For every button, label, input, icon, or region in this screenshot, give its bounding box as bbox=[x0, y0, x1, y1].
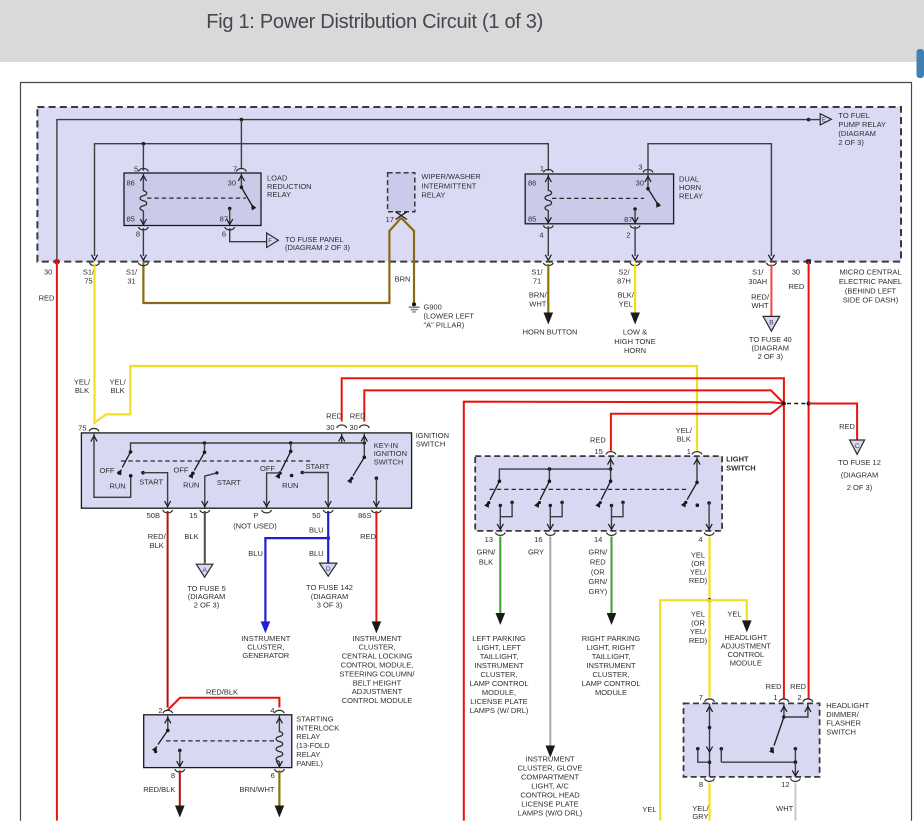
pin 6 connector arc bbox=[275, 769, 285, 772]
svg-text:RUN: RUN bbox=[183, 481, 199, 490]
dimmer pin 12 wire bbox=[794, 762, 796, 777]
node: left 30 feed-through bbox=[55, 259, 60, 264]
wire: pin 30a drop bbox=[341, 433, 343, 443]
wire: red jumper pin2 to pin4 bbox=[168, 698, 280, 710]
svg-text:BLK: BLK bbox=[479, 558, 493, 567]
switch 3 stub bbox=[290, 443, 292, 451]
pin 7 connector arc bbox=[237, 169, 247, 172]
svg-text:(13-FOLD: (13-FOLD bbox=[296, 741, 330, 750]
svg-text:LAMPS (W/O DRL): LAMPS (W/O DRL) bbox=[518, 809, 583, 818]
svg-text:2 OF 3): 2 OF 3) bbox=[847, 483, 873, 492]
svg-text:MODULE: MODULE bbox=[595, 688, 627, 697]
svg-text:TAILLIGHT,: TAILLIGHT, bbox=[480, 652, 519, 661]
svg-text:15: 15 bbox=[594, 447, 602, 456]
svg-text:50: 50 bbox=[312, 511, 320, 520]
switch blade bbox=[241, 187, 253, 207]
ls pin 4 wire bbox=[707, 501, 711, 505]
svg-text:BRN/: BRN/ bbox=[529, 291, 548, 300]
svg-text:GRN/: GRN/ bbox=[477, 548, 497, 557]
svg-text:7: 7 bbox=[233, 165, 237, 174]
coil wire to pin 8 bbox=[142, 211, 144, 226]
svg-text:LAMP CONTROL: LAMP CONTROL bbox=[581, 679, 640, 688]
svg-text:RED): RED) bbox=[689, 576, 708, 585]
svg-text:WHT: WHT bbox=[529, 300, 546, 309]
svg-text:ELECTRIC PANEL: ELECTRIC PANEL bbox=[839, 277, 902, 286]
svg-text:INSTRUMENT: INSTRUMENT bbox=[525, 755, 575, 764]
pin 4 connector arc bbox=[543, 225, 553, 228]
wire: red/blk pin 8 out bbox=[179, 770, 181, 806]
wire: yel pin 4 drop bbox=[708, 537, 710, 601]
svg-text:RED: RED bbox=[350, 412, 366, 421]
svg-text:4: 4 bbox=[270, 706, 274, 715]
svg-text:17: 17 bbox=[386, 215, 394, 224]
dimmer blade bbox=[774, 717, 784, 746]
wire: red light switch 15 to node bbox=[611, 404, 784, 451]
svg-text:S1/: S1/ bbox=[531, 267, 543, 276]
flow arrow D to fuse 142 bbox=[319, 563, 337, 576]
ls wiper 4 bbox=[687, 482, 697, 499]
svg-text:INSTRUMENT: INSTRUMENT bbox=[474, 661, 524, 670]
svg-text:HEADLIGHT: HEADLIGHT bbox=[826, 701, 869, 710]
svg-text:30AH: 30AH bbox=[748, 277, 767, 286]
interlock coil bbox=[276, 732, 283, 762]
pin 3 connector arc bbox=[643, 170, 653, 173]
ls pin 14 wire bbox=[611, 506, 613, 530]
flow arrow E to fuel pump relay bbox=[820, 114, 831, 125]
pin 17 crossed mark bbox=[396, 212, 408, 220]
ls pin 16 wire bbox=[549, 506, 551, 530]
svg-text:(BEHIND LEFT: (BEHIND LEFT bbox=[845, 286, 897, 295]
ignition dashed actuator link bbox=[121, 460, 311, 462]
svg-text:2 OF 3): 2 OF 3) bbox=[758, 352, 784, 361]
svg-text:START: START bbox=[217, 478, 241, 487]
svg-text:TO FUSE 40: TO FUSE 40 bbox=[749, 335, 792, 344]
svg-text:15: 15 bbox=[189, 511, 197, 520]
switch 3 run contact bbox=[290, 474, 294, 478]
wire: S1/71 brn/wht to horn button bbox=[547, 264, 549, 313]
svg-text:WHT: WHT bbox=[752, 301, 769, 310]
wire: internal 30 bus bbox=[131, 443, 365, 452]
svg-text:RED: RED bbox=[360, 532, 376, 541]
dimmer pin7 side contact bbox=[696, 747, 700, 751]
node: junction above load relay pin 5 bbox=[142, 142, 146, 146]
svg-text:BLK: BLK bbox=[677, 434, 691, 443]
svg-text:16: 16 bbox=[534, 535, 542, 544]
ls contacts 1 bbox=[499, 504, 503, 508]
switch 3 blade bbox=[281, 451, 291, 470]
svg-text:LAMP CONTROL: LAMP CONTROL bbox=[469, 679, 528, 688]
pin 5 connector arc bbox=[139, 169, 149, 172]
svg-text:GRY): GRY) bbox=[588, 587, 607, 596]
svg-text:87H: 87H bbox=[617, 276, 631, 285]
svg-text:BLU: BLU bbox=[309, 525, 324, 534]
interlock coil wire bbox=[278, 715, 280, 732]
svg-text:MODULE: MODULE bbox=[730, 659, 762, 668]
pin 4 connector arc bbox=[275, 710, 285, 713]
flow arrow A to fuse 5 bbox=[196, 564, 213, 577]
connector S2/87H arc bbox=[630, 263, 640, 266]
wire: yel/blk branch to light switch pin 1 bbox=[95, 366, 698, 451]
svg-text:YEL: YEL bbox=[691, 610, 705, 619]
flow arrow C to fuse 12 bbox=[850, 440, 865, 454]
switch 1 start contact to pin 50B bbox=[141, 471, 145, 475]
light switch mech dashed link bbox=[489, 488, 688, 490]
wire: left 30 RED drop bbox=[56, 262, 58, 821]
switch 2 off contact bbox=[191, 472, 195, 476]
svg-text:3 OF 3): 3 OF 3) bbox=[317, 600, 343, 609]
svg-text:LOW &: LOW & bbox=[623, 328, 647, 337]
ignition switch body bbox=[81, 433, 411, 508]
connector S1/31 arc bbox=[139, 263, 149, 266]
svg-text:GENERATOR: GENERATOR bbox=[242, 651, 289, 660]
pin 1 connector arc bbox=[779, 699, 789, 702]
svg-text:RED: RED bbox=[790, 682, 806, 691]
svg-text:RED: RED bbox=[766, 682, 782, 691]
svg-text:YEL/: YEL/ bbox=[690, 627, 707, 636]
svg-text:FLASHER: FLASHER bbox=[826, 719, 861, 728]
svg-text:P: P bbox=[253, 511, 258, 520]
svg-text:RED: RED bbox=[326, 412, 342, 421]
svg-text:GRY: GRY bbox=[692, 812, 708, 821]
wire pin 6 to fuse panel arrow bbox=[230, 228, 267, 242]
wire: yel left branch to page bottom bbox=[660, 600, 709, 820]
svg-text:TO FUEL: TO FUEL bbox=[838, 111, 870, 120]
wire: red mid-rail to node bbox=[464, 402, 784, 821]
pin 87 contact wire bbox=[633, 207, 637, 211]
wire pin 2 to S2/87H bbox=[634, 226, 636, 256]
svg-text:75: 75 bbox=[78, 423, 86, 432]
ground G900 symbol bbox=[412, 302, 416, 306]
svg-text:RED): RED) bbox=[689, 636, 708, 645]
wire: right 30 RED drop to node bbox=[808, 262, 810, 699]
pin 2 connector arc bbox=[803, 699, 813, 702]
svg-text:OFF: OFF bbox=[100, 466, 115, 475]
coil of load reduction relay bbox=[140, 191, 147, 211]
svg-text:CLUSTER,: CLUSTER, bbox=[480, 670, 517, 679]
svg-text:30: 30 bbox=[792, 267, 800, 276]
svg-text:6: 6 bbox=[222, 230, 226, 239]
svg-text:G900: G900 bbox=[424, 303, 442, 312]
pin 6 connector arc bbox=[225, 227, 235, 230]
wire: S2/87H blk/yel to horns bbox=[634, 264, 636, 313]
svg-text:C: C bbox=[855, 443, 860, 450]
pin 12 connector arc bbox=[791, 779, 801, 782]
svg-text:Fig 1: Power Distribution Circ: Fig 1: Power Distribution Circuit (1 of … bbox=[206, 11, 543, 33]
svg-text:MODULE,: MODULE, bbox=[482, 688, 516, 697]
svg-text:LEFT PARKING: LEFT PARKING bbox=[472, 634, 526, 643]
wire: blu 50 branch bbox=[327, 511, 329, 563]
svg-text:12: 12 bbox=[781, 780, 789, 789]
coil wire to pin 4 bbox=[547, 210, 549, 223]
switch common from pin 7 bbox=[240, 173, 242, 187]
wire: blu to instrument cluster generator bbox=[265, 538, 328, 621]
node: blue junction bbox=[326, 536, 330, 540]
light switch body (dashed) bbox=[475, 456, 722, 531]
ls wiper 2 bbox=[540, 481, 549, 500]
svg-text:YEL/: YEL/ bbox=[109, 377, 126, 386]
svg-text:LIGHT, A/C: LIGHT, A/C bbox=[531, 782, 569, 791]
ls lone contact bbox=[696, 503, 700, 507]
svg-text:5: 5 bbox=[134, 165, 138, 174]
svg-text:YEL/: YEL/ bbox=[74, 377, 91, 386]
ls stub 3 bbox=[610, 469, 612, 481]
svg-text:(OR: (OR bbox=[591, 567, 605, 576]
connector S1/71 arc bbox=[543, 263, 553, 266]
svg-text:A: A bbox=[202, 567, 207, 574]
svg-text:SIDE OF DASH): SIDE OF DASH) bbox=[843, 296, 899, 305]
coil wire from pin 5 bbox=[142, 173, 144, 191]
svg-text:PANEL): PANEL) bbox=[296, 759, 323, 768]
svg-text:(DIAGRAM 2 OF 3): (DIAGRAM 2 OF 3) bbox=[285, 243, 351, 252]
svg-text:RED: RED bbox=[590, 557, 606, 566]
key-in blade bbox=[353, 457, 364, 476]
svg-text:RIGHT PARKING: RIGHT PARKING bbox=[582, 634, 641, 643]
light switch internal bus bbox=[610, 456, 612, 469]
svg-text:YEL: YEL bbox=[727, 610, 741, 619]
pin 8 connector arc bbox=[705, 779, 715, 782]
svg-text:YEL: YEL bbox=[619, 300, 633, 309]
svg-text:86S: 86S bbox=[358, 511, 371, 520]
interlock blade bbox=[158, 730, 168, 744]
svg-text:BELT HEIGHT: BELT HEIGHT bbox=[353, 678, 402, 687]
svg-text:INTERLOCK: INTERLOCK bbox=[296, 723, 339, 732]
interlock switch common bbox=[167, 715, 169, 731]
svg-text:PUMP RELAY: PUMP RELAY bbox=[838, 120, 886, 129]
wire: red 86S to modules bbox=[375, 511, 377, 622]
node: junction at fuel pump tap bbox=[807, 118, 811, 122]
svg-text:86: 86 bbox=[528, 179, 536, 188]
svg-text:4: 4 bbox=[539, 230, 543, 239]
svg-text:8: 8 bbox=[136, 230, 140, 239]
wire: yel right branch to headlight adjustment bbox=[710, 600, 747, 621]
pin 1 connector arc bbox=[692, 452, 702, 455]
dashed actuator link bbox=[147, 197, 246, 199]
wire: 30 bus (left 30 to fuel pump relay) bbox=[57, 120, 809, 262]
wire: red ignition 30a to dimmer pin 1 bbox=[342, 378, 784, 698]
svg-text:85: 85 bbox=[528, 214, 536, 223]
wire: grn/red to right parking lights bbox=[611, 537, 613, 614]
svg-text:HORN BUTTON: HORN BUTTON bbox=[523, 328, 578, 337]
coil wire from pin 1 bbox=[547, 174, 549, 191]
relay: dual horn relay body bbox=[525, 174, 673, 224]
wire: yel/blk S1/75 to ignition pin 75 bbox=[93, 264, 95, 424]
svg-text:30: 30 bbox=[228, 179, 236, 188]
svg-text:87: 87 bbox=[624, 215, 632, 224]
svg-text:STARTING: STARTING bbox=[296, 714, 333, 723]
pin 15 connector arc bbox=[606, 452, 616, 455]
dashed actuator link bbox=[552, 197, 644, 199]
svg-text:"A" PILLAR): "A" PILLAR) bbox=[424, 320, 465, 329]
switch 2 blade bbox=[194, 452, 204, 470]
wire: brn/wht pin 6 out bbox=[278, 770, 280, 806]
ls wiper 1 bbox=[490, 481, 499, 500]
svg-text:RELAY: RELAY bbox=[267, 190, 291, 199]
svg-text:RED: RED bbox=[788, 282, 804, 291]
wire: stub to E arrow bbox=[809, 119, 820, 121]
svg-text:CLUSTER,: CLUSTER, bbox=[592, 670, 629, 679]
svg-text:BLK: BLK bbox=[75, 386, 89, 395]
svg-text:S2/: S2/ bbox=[618, 267, 630, 276]
pin 2 connector arc bbox=[163, 710, 173, 713]
dimmer contact row bbox=[720, 747, 724, 751]
dimmer switch body (dashed) bbox=[684, 703, 820, 777]
wire: red/blk 50B to interlock pin 2 bbox=[167, 511, 169, 708]
svg-text:14: 14 bbox=[594, 535, 602, 544]
svg-text:13: 13 bbox=[485, 535, 493, 544]
svg-text:TAILLIGHT,: TAILLIGHT, bbox=[592, 652, 631, 661]
svg-text:(OR: (OR bbox=[691, 618, 705, 627]
wire: grn/blk to left parking lights bbox=[499, 537, 501, 614]
node: yellow junction bbox=[707, 598, 711, 602]
svg-text:GRY: GRY bbox=[528, 548, 544, 557]
svg-text:RED: RED bbox=[590, 435, 606, 444]
switch blade bbox=[648, 189, 658, 205]
svg-text:2: 2 bbox=[158, 706, 162, 715]
svg-text:(NOT USED): (NOT USED) bbox=[233, 521, 277, 530]
svg-text:STEERING COLUMN/: STEERING COLUMN/ bbox=[339, 669, 415, 678]
wire: yel continues to dimmer pin 7 bbox=[708, 600, 710, 697]
svg-text:WIPER/WASHER: WIPER/WASHER bbox=[421, 172, 481, 181]
svg-text:71: 71 bbox=[533, 276, 541, 285]
switch 3 start contact to pin 50 bbox=[301, 471, 305, 475]
coil of dual horn relay bbox=[545, 190, 552, 210]
wire: pin 30b drop bbox=[363, 433, 365, 443]
svg-text:BLK: BLK bbox=[150, 541, 164, 550]
ls pin 13 wire bbox=[499, 506, 501, 530]
svg-text:4: 4 bbox=[698, 535, 702, 544]
node: red junction A bbox=[782, 402, 786, 406]
page header bar bbox=[0, 0, 924, 62]
node: red junction B bbox=[807, 402, 811, 406]
svg-text:BLK: BLK bbox=[111, 386, 125, 395]
relay: load reduction relay body bbox=[124, 173, 261, 226]
svg-text:ADJUSTMENT: ADJUSTMENT bbox=[352, 687, 403, 696]
ls stub 2 bbox=[548, 469, 550, 481]
wire: red node to fuse 12 bbox=[809, 404, 858, 440]
svg-text:START: START bbox=[306, 462, 330, 471]
svg-text:MICRO CENTRAL: MICRO CENTRAL bbox=[839, 268, 901, 277]
svg-text:CENTRAL LOCKING: CENTRAL LOCKING bbox=[342, 652, 413, 661]
switch 3 off contact to pin P bbox=[278, 471, 282, 475]
dimmer pin 1 wire bbox=[783, 703, 785, 717]
ls contacts 3 bbox=[610, 504, 614, 508]
pin 8 connector arc bbox=[175, 769, 185, 772]
wire: S1/30AH red/wht to fuse 40 bbox=[770, 265, 772, 317]
svg-text:F: F bbox=[268, 238, 272, 245]
svg-text:RED/: RED/ bbox=[751, 292, 770, 301]
svg-text:(DIAGRAM: (DIAGRAM bbox=[752, 344, 790, 353]
svg-text:BLU: BLU bbox=[309, 549, 324, 558]
switch 1 blade bbox=[122, 452, 130, 468]
svg-text:LICENSE PLATE: LICENSE PLATE bbox=[470, 697, 527, 706]
svg-text:30: 30 bbox=[636, 179, 644, 188]
svg-text:1: 1 bbox=[540, 164, 544, 173]
connector S1/30AH arc bbox=[767, 263, 777, 266]
wire: drop from 30 bus to load relay pin 7 bbox=[240, 118, 244, 122]
svg-text:BRN: BRN bbox=[395, 275, 411, 284]
key-in switch stub bbox=[363, 443, 365, 457]
svg-text:SWITCH: SWITCH bbox=[416, 440, 446, 449]
svg-text:S1/: S1/ bbox=[752, 267, 764, 276]
svg-text:DIMMER/: DIMMER/ bbox=[826, 710, 859, 719]
wire: brn pin 17 to ground bbox=[401, 218, 414, 303]
svg-text:8: 8 bbox=[699, 780, 703, 789]
svg-text:3: 3 bbox=[638, 163, 642, 172]
svg-text:START: START bbox=[139, 477, 163, 486]
wire: 86 coil feed bus (S1/75 to relays) bbox=[95, 144, 549, 256]
svg-text:6: 6 bbox=[271, 771, 275, 780]
switch common from pin 3 bbox=[647, 174, 649, 189]
wire: gry to instrument cluster glove bbox=[549, 537, 551, 746]
node: right 30 feed-through bbox=[806, 259, 811, 264]
svg-text:BLU: BLU bbox=[248, 549, 263, 558]
wire: blk 15 to fuse 5 bbox=[204, 511, 206, 563]
wire: drop to load relay pin 5 bbox=[142, 144, 144, 171]
svg-text:1: 1 bbox=[687, 447, 691, 456]
svg-text:RUN: RUN bbox=[282, 481, 298, 490]
svg-text:75: 75 bbox=[84, 276, 92, 285]
svg-text:31: 31 bbox=[127, 276, 135, 285]
svg-text:BLK: BLK bbox=[184, 532, 198, 541]
svg-text:S1/: S1/ bbox=[83, 267, 95, 276]
switch 2 stub bbox=[204, 443, 206, 452]
pin 2 connector arc bbox=[630, 225, 640, 228]
svg-text:30: 30 bbox=[349, 423, 357, 432]
svg-text:HORN: HORN bbox=[624, 346, 646, 355]
svg-text:7: 7 bbox=[699, 693, 703, 702]
svg-text:RED: RED bbox=[39, 293, 55, 302]
svg-text:RELAY: RELAY bbox=[679, 192, 703, 201]
svg-text:INSTRUMENT: INSTRUMENT bbox=[352, 634, 402, 643]
svg-text:30: 30 bbox=[326, 423, 334, 432]
svg-text:RELAY: RELAY bbox=[421, 190, 445, 199]
svg-text:COMPARTMENT: COMPARTMENT bbox=[521, 773, 579, 782]
svg-text:OFF: OFF bbox=[174, 466, 189, 475]
svg-text:SWITCH: SWITCH bbox=[374, 457, 404, 466]
svg-text:2 OF 3): 2 OF 3) bbox=[194, 600, 220, 609]
pin 7 connector arc bbox=[705, 699, 715, 702]
interlock contact to pin 8 bbox=[178, 749, 182, 753]
pin 8 connector arc bbox=[139, 227, 149, 230]
svg-text:LICENSE PLATE: LICENSE PLATE bbox=[521, 800, 578, 809]
svg-text:85: 85 bbox=[127, 215, 135, 224]
pin 30a connector arc bbox=[337, 425, 347, 428]
svg-text:(DIAGRAM: (DIAGRAM bbox=[841, 471, 879, 480]
svg-text:(LOWER LEFT: (LOWER LEFT bbox=[424, 311, 475, 320]
switch 1 off contact bbox=[117, 471, 121, 475]
svg-text:SWITCH: SWITCH bbox=[726, 464, 756, 473]
pin 1 connector arc bbox=[543, 170, 553, 173]
wire pin 8 to S1/31 bbox=[142, 228, 144, 256]
svg-text:D: D bbox=[326, 566, 331, 573]
svg-text:1: 1 bbox=[773, 693, 777, 702]
svg-text:SWITCH: SWITCH bbox=[826, 728, 856, 737]
svg-text:50B: 50B bbox=[147, 511, 160, 520]
svg-text:GRN/: GRN/ bbox=[588, 548, 608, 557]
svg-text:CLUSTER, GLOVE: CLUSTER, GLOVE bbox=[517, 764, 582, 773]
svg-text:CONTROL HEAD: CONTROL HEAD bbox=[520, 791, 580, 800]
wire: wht pin 12 out bbox=[794, 783, 796, 821]
svg-text:RED/BLK: RED/BLK bbox=[143, 785, 175, 794]
pin 87 contact wire bbox=[228, 207, 232, 211]
svg-text:86: 86 bbox=[127, 179, 135, 188]
svg-text:RED/BLK: RED/BLK bbox=[206, 688, 238, 697]
svg-text:LIGHT: LIGHT bbox=[726, 455, 749, 464]
wire: brn from S1/31 up to pin 17 bbox=[143, 218, 401, 303]
switch 2 start contact to pin 15 bbox=[205, 473, 217, 508]
svg-text:(DIAGRAM: (DIAGRAM bbox=[838, 129, 876, 138]
pin 30b connector arc bbox=[359, 425, 369, 428]
